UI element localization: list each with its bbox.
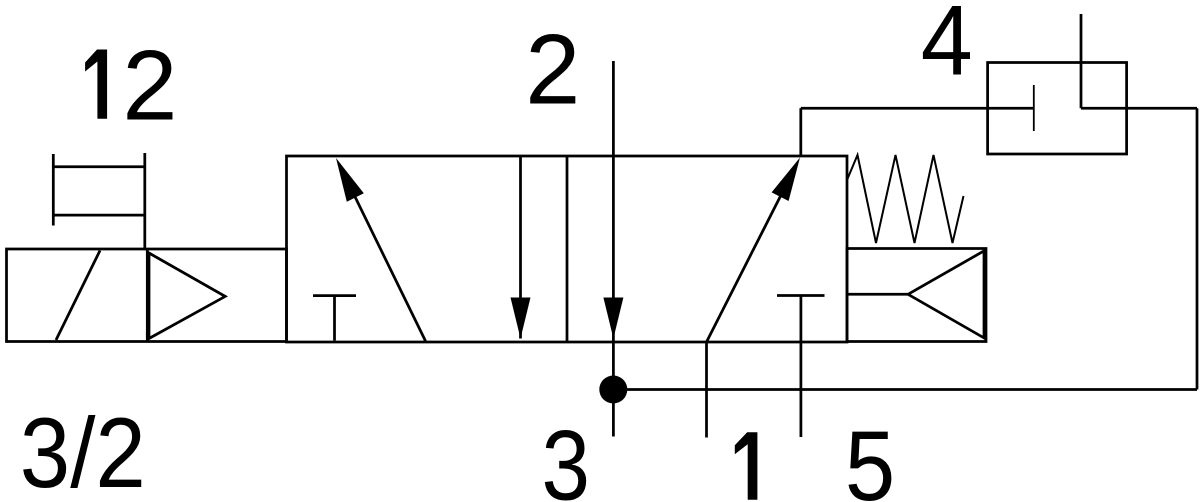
port 4 wire vertical [799, 108, 802, 156]
valve body [287, 156, 848, 342]
port 2 line [612, 61, 615, 390]
pneumatic return box [847, 249, 986, 342]
port 1 line [705, 342, 708, 438]
blocked port T left position [313, 296, 356, 341]
wire port 12 to solenoid box [143, 153, 146, 249]
svg-text:3/2: 3/2 [20, 397, 146, 502]
pilot amplifier triangle [149, 253, 225, 339]
pilot port 12 symbol [53, 154, 145, 226]
return wire bottom [613, 388, 1197, 391]
port 3 stub [612, 390, 615, 437]
blocked port T right position [777, 294, 825, 297]
solenoid actuator box [7, 249, 287, 342]
port 4 wire horizontal [801, 107, 1034, 110]
port 4 plug box [988, 63, 1127, 155]
port label 12 [85, 30, 177, 141]
flow arrow right position [707, 158, 801, 343]
exhaust arrow left position [511, 157, 531, 339]
junction dot [599, 376, 627, 404]
exhaust arrow right position [603, 298, 623, 339]
port 4 stub up [1080, 14, 1083, 108]
return spring [847, 155, 964, 243]
solenoid divider [146, 249, 149, 342]
svg-text:3: 3 [542, 409, 591, 502]
valve position divider [566, 156, 569, 342]
port 1 label [735, 432, 758, 500]
port 5 line [800, 296, 803, 438]
svg-text:5: 5 [845, 410, 895, 502]
port 4 blocked bar [1033, 85, 1035, 131]
pneumatic return triangle [908, 251, 984, 338]
return wire right [1196, 108, 1199, 389]
svg-text:2: 2 [122, 30, 177, 141]
svg-text:4: 4 [921, 0, 973, 96]
return wire top [1081, 107, 1197, 110]
svg-text:2: 2 [525, 13, 580, 124]
flow arrow left position [336, 158, 426, 341]
solenoid coil diagonal [56, 251, 100, 341]
pneumatic return line [847, 293, 908, 296]
